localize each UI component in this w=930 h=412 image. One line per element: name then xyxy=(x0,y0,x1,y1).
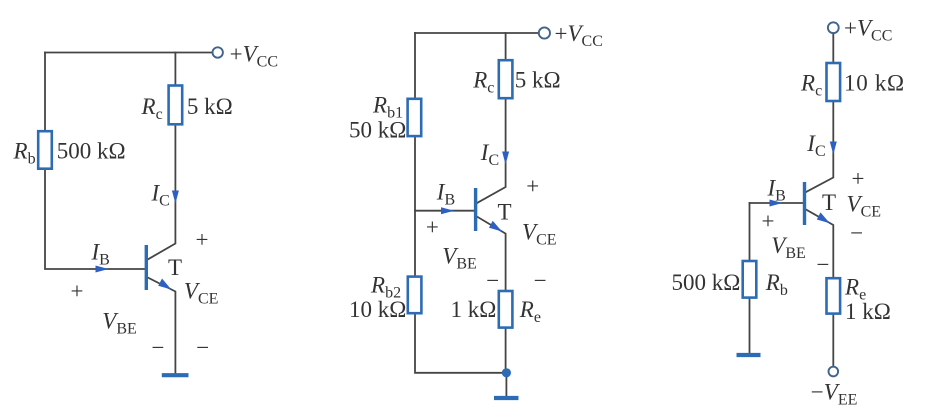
svg-text:VBE: VBE xyxy=(102,309,137,338)
svg-text:+: + xyxy=(196,227,209,252)
svg-text:500 kΩ: 500 kΩ xyxy=(57,139,126,164)
svg-text:IC: IC xyxy=(151,181,170,210)
svg-text:VCE: VCE xyxy=(847,192,882,221)
svg-text:Re: Re xyxy=(519,297,541,326)
svg-text:1 kΩ: 1 kΩ xyxy=(451,297,497,322)
svg-text:+: + xyxy=(426,214,439,239)
svg-text:IB: IB xyxy=(767,176,786,205)
svg-text:−: − xyxy=(486,268,499,293)
svg-text:+VCC: +VCC xyxy=(844,16,892,45)
svg-text:−: − xyxy=(534,268,547,293)
svg-text:Rc: Rc xyxy=(800,71,822,100)
svg-text:500 kΩ: 500 kΩ xyxy=(672,270,741,295)
svg-text:5 kΩ: 5 kΩ xyxy=(187,94,233,119)
svg-text:10 kΩ: 10 kΩ xyxy=(844,71,905,96)
svg-text:10 kΩ: 10 kΩ xyxy=(349,297,406,322)
svg-text:IB: IB xyxy=(436,180,455,209)
svg-text:T: T xyxy=(822,190,836,215)
svg-text:IB: IB xyxy=(91,240,110,269)
svg-text:−: − xyxy=(152,335,165,360)
svg-text:−VEE: −VEE xyxy=(811,380,858,409)
svg-text:Rb: Rb xyxy=(13,139,36,168)
svg-text:VBE: VBE xyxy=(771,233,806,262)
svg-text:+: + xyxy=(852,166,865,191)
svg-text:−: − xyxy=(850,221,863,246)
svg-text:+: + xyxy=(526,174,539,199)
svg-text:+VCC: +VCC xyxy=(555,21,603,50)
svg-text:T: T xyxy=(168,255,182,280)
svg-text:+: + xyxy=(762,209,775,234)
svg-text:−: − xyxy=(817,252,830,277)
svg-text:IC: IC xyxy=(806,131,825,160)
svg-text:1 kΩ: 1 kΩ xyxy=(845,299,891,324)
svg-text:VBE: VBE xyxy=(442,244,477,273)
svg-text:IC: IC xyxy=(480,140,499,169)
svg-text:Rc: Rc xyxy=(472,68,494,97)
svg-text:+VCC: +VCC xyxy=(230,42,278,71)
svg-text:+: + xyxy=(71,279,84,304)
svg-text:−: − xyxy=(196,335,209,360)
svg-text:VCE: VCE xyxy=(184,279,219,308)
svg-text:5 kΩ: 5 kΩ xyxy=(515,68,561,93)
svg-text:50 kΩ: 50 kΩ xyxy=(349,118,406,143)
svg-text:Rc: Rc xyxy=(141,94,163,123)
svg-text:VCE: VCE xyxy=(522,220,557,249)
svg-text:T: T xyxy=(498,200,512,225)
svg-text:Rb: Rb xyxy=(765,270,788,299)
